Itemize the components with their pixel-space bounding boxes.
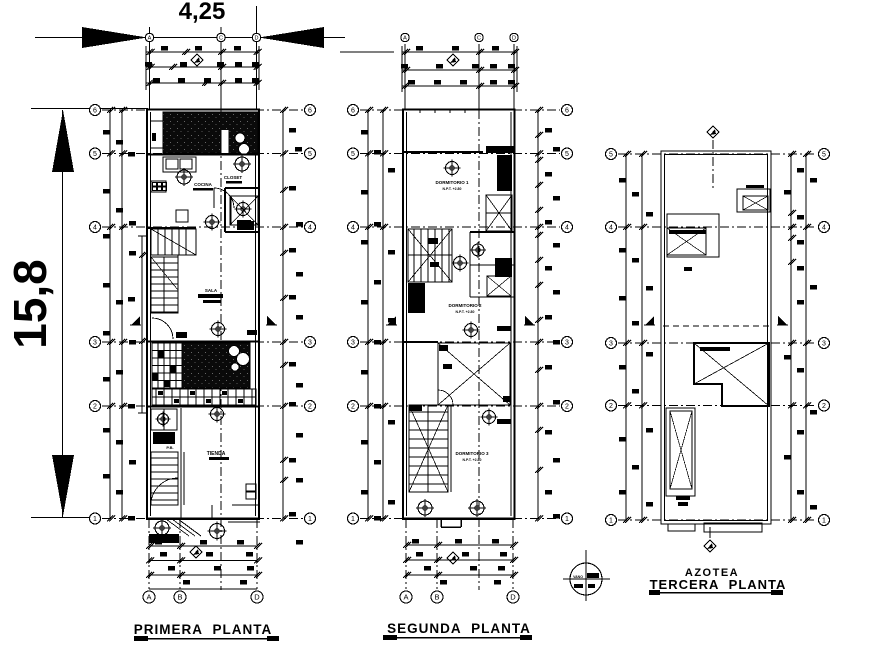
grid column A plan1 top	[149, 27, 151, 110]
svg-text:D: D	[254, 593, 260, 602]
svg-text:6: 6	[93, 108, 97, 115]
svg-text:1: 1	[351, 516, 355, 523]
stray line left of plan2	[340, 51, 394, 53]
svg-text:2: 2	[351, 404, 355, 411]
plan3 outer walls	[661, 151, 771, 524]
grid bubble 1	[90, 513, 101, 524]
grid bubble 4	[606, 222, 617, 233]
grid column D plan1 bottom	[256, 519, 258, 589]
big left arrow	[82, 27, 147, 48]
svg-text:A: A	[146, 593, 151, 602]
plan1 outer wall left	[146, 109, 148, 519]
title underline plan3	[649, 590, 783, 595]
grid bubble B	[431, 591, 443, 603]
grid bubble A	[145, 33, 153, 41]
grid bubble A	[143, 591, 155, 603]
grid line 5 plan2	[360, 153, 560, 155]
svg-text:PRIMERA PLANTA: PRIMERA PLANTA	[134, 622, 273, 637]
plan2 outer wall bottom	[402, 517, 516, 520]
bottom tabs plan3	[668, 523, 762, 532]
grid bubble 6	[305, 105, 316, 116]
svg-text:DORMITORIO 3: DORMITORIO 3	[456, 451, 489, 456]
grid bubble 5	[348, 148, 359, 159]
svg-text:D: D	[255, 35, 259, 41]
svg-text:5: 5	[351, 151, 355, 158]
washer black blob	[153, 432, 175, 444]
compass / vano symbol	[563, 550, 610, 601]
plumbing fixture circle	[175, 168, 193, 186]
svg-text:DORMITORIO 1: DORMITORIO 1	[436, 180, 469, 185]
grid line 6 plan2	[360, 109, 560, 111]
roof box left plan3	[667, 214, 719, 271]
svg-text:CLOSET: CLOSET	[224, 175, 243, 180]
plumbing fixture circle	[156, 412, 171, 427]
toilet black blob plan2	[495, 258, 512, 277]
title underline	[134, 636, 279, 641]
stair flight down	[151, 257, 178, 313]
grid bubble 3	[606, 338, 617, 349]
svg-text:3: 3	[822, 341, 826, 348]
svg-text:3: 3	[93, 340, 97, 347]
stair rail line	[177, 255, 179, 313]
grid bubble 5	[606, 149, 617, 160]
flags plan3	[644, 316, 655, 325]
grid bubble 2	[606, 400, 617, 411]
svg-text:4: 4	[822, 225, 826, 232]
dimension chain plan1 right	[280, 107, 303, 545]
grid line 2 plan3	[618, 405, 817, 407]
grid column C plan1 top	[220, 27, 222, 110]
L-shaped roof light plan3	[694, 343, 769, 406]
svg-text:3: 3	[609, 341, 613, 348]
appliance grid left	[151, 181, 167, 192]
grid line 5 plan1	[102, 153, 303, 155]
up arrow	[52, 110, 74, 172]
svg-text:4,25: 4,25	[179, 0, 226, 25]
grid bubble D	[252, 33, 260, 41]
grid column A plan2 bottom	[405, 519, 407, 589]
grid bubble 6	[562, 105, 573, 116]
tienda stair	[151, 452, 178, 505]
plan1 outer wall top	[146, 108, 260, 110]
svg-text:N.P.T. +2.80: N.P.T. +2.80	[463, 458, 482, 462]
small table	[176, 210, 188, 222]
grid bubble 2	[562, 401, 573, 412]
grid line 5 plan3	[618, 153, 817, 155]
grid bubble 6	[90, 105, 101, 116]
wall row4 partial	[147, 227, 196, 229]
wall row3 plan2	[403, 341, 438, 343]
wash basin circles	[235, 133, 245, 143]
plumbing fixture circle	[204, 214, 221, 231]
grid bubble A	[400, 591, 412, 603]
kitchen sink counter	[163, 157, 196, 172]
svg-text:6: 6	[308, 108, 312, 115]
grid bubble 4	[348, 222, 359, 233]
grid bubble 1	[819, 515, 830, 526]
svg-text:6: 6	[565, 108, 569, 115]
door arc X-room	[438, 390, 453, 405]
svg-text:15,8: 15,8	[4, 259, 56, 349]
svg-text:B: B	[177, 593, 182, 602]
roof box top-right plan3	[737, 185, 770, 212]
grid line 1 plan3	[618, 519, 817, 521]
grid bubble D	[507, 591, 519, 603]
room divider row5 plan2	[403, 151, 483, 153]
svg-text:3: 3	[308, 340, 312, 347]
north arrow symbol	[191, 54, 203, 66]
svg-text:A: A	[403, 35, 407, 41]
svg-text:4: 4	[308, 225, 312, 232]
small rects right tienda	[246, 484, 256, 491]
svg-text:D: D	[510, 593, 516, 602]
bath X rect plan2	[487, 276, 511, 296]
plumbing fixture circle	[470, 242, 486, 258]
door arc kitchen	[214, 188, 234, 208]
svg-text:VANO: VANO	[573, 575, 583, 579]
svg-text:5: 5	[609, 152, 613, 159]
grid bubble 5	[562, 148, 573, 159]
svg-text:5: 5	[93, 151, 97, 158]
big stair plan2	[409, 405, 448, 492]
entry black pad	[149, 534, 179, 543]
plumbing fixture circle	[452, 255, 469, 272]
bathtub with X	[230, 196, 258, 225]
wall row2 plan1	[147, 406, 260, 408]
dashed mid line plan3	[663, 325, 769, 327]
stairs upper plan2	[408, 229, 452, 282]
grid bubble 5	[90, 148, 101, 159]
plan2 outer wall left	[402, 109, 404, 519]
grid line 3 plan1	[102, 341, 303, 343]
black marks right bottom plan2	[497, 419, 511, 424]
svg-text:1: 1	[822, 518, 826, 525]
svg-text:4: 4	[565, 225, 569, 232]
grid bubble B	[174, 591, 186, 603]
grid column C plan2 top	[478, 44, 480, 110]
dimension chain plan2 left	[361, 107, 395, 522]
svg-text:1: 1	[93, 516, 97, 523]
bath walls	[225, 188, 259, 232]
plumbing fixture circle	[468, 499, 486, 517]
plumbing fixture circle	[444, 160, 461, 177]
svg-text:2: 2	[609, 403, 613, 410]
north arrow symbol	[447, 552, 459, 564]
tiled floor left	[152, 343, 182, 388]
grid column B plan1 bottom	[179, 519, 181, 589]
upper stair landing	[151, 229, 196, 255]
black rects near row3	[176, 332, 187, 338]
down arrow	[52, 455, 74, 516]
row5 wall plan1	[147, 154, 260, 156]
vertical dimension line left	[62, 110, 64, 517]
grid column D plan2 bottom	[512, 519, 514, 589]
grid bubble 3	[562, 337, 573, 348]
dimension line top	[35, 37, 345, 39]
dimension chain plan2 right	[535, 107, 560, 522]
grid column D plan1 top	[256, 6, 258, 110]
north arrow symbol	[190, 546, 202, 558]
grid bubble 3	[305, 337, 316, 348]
grid column A plan2 top	[404, 44, 406, 110]
svg-text:A: A	[148, 35, 152, 41]
plumbing fixture circle	[416, 499, 434, 517]
dark hatched patio	[182, 343, 250, 388]
X room plan2	[438, 343, 510, 405]
grid bubble 4	[819, 222, 830, 233]
flags plan2	[386, 316, 397, 325]
svg-text:6: 6	[351, 108, 355, 115]
grid bubble 1	[562, 513, 573, 524]
white slot in hatch	[222, 130, 229, 153]
big right arrow	[259, 27, 324, 48]
white tub circles	[229, 346, 240, 357]
svg-text:5: 5	[822, 152, 826, 159]
grid bubble 4	[90, 222, 101, 233]
flag markers row mid plan1	[130, 316, 141, 325]
plan2 outer wall top	[402, 108, 516, 110]
grid line 4 plan3	[618, 226, 817, 228]
north arrow symbol	[447, 54, 459, 66]
tall roof box bottom-left plan3	[666, 408, 695, 506]
grid line 3 plan2	[360, 341, 560, 343]
svg-text:N.P.T. +2.80: N.P.T. +2.80	[443, 187, 462, 191]
grid line 4 plan1	[102, 226, 303, 228]
svg-text:B: B	[434, 593, 439, 602]
plan1 outer wall bottom	[146, 517, 260, 520]
grid bubble 6	[348, 105, 359, 116]
svg-text:C: C	[219, 35, 223, 41]
svg-text:3: 3	[565, 340, 569, 347]
plumbing fixture circle	[481, 409, 498, 426]
plumbing fixture circle	[209, 406, 226, 423]
svg-text:1: 1	[565, 516, 569, 523]
extension line row 1 left	[31, 517, 95, 519]
svg-text:N.P.T. +2.80: N.P.T. +2.80	[456, 310, 475, 314]
bath walls mid plan2	[470, 232, 515, 297]
svg-text:2: 2	[93, 404, 97, 411]
grid column D plan2 top	[513, 44, 515, 110]
grid bubble D	[251, 591, 263, 603]
plumbing fixture circle	[153, 519, 171, 537]
svg-text:4: 4	[351, 225, 355, 232]
grid line 3 plan3	[618, 342, 817, 344]
svg-text:1: 1	[308, 516, 312, 523]
grid column A plan1 bottom	[148, 519, 150, 589]
grid bubble 1	[348, 513, 359, 524]
grid column B plan2 bottom	[436, 519, 438, 589]
elevator shaft with X	[486, 195, 512, 231]
door arc tienda	[232, 504, 260, 506]
small wc top-left tienda	[151, 409, 177, 430]
plan2 outer wall right	[513, 109, 515, 519]
grid bubble 3	[348, 337, 359, 348]
black step rects plan2	[428, 238, 438, 244]
grid bubble 5	[819, 149, 830, 160]
svg-text:3: 3	[351, 340, 355, 347]
svg-text:C: C	[477, 35, 481, 41]
sala furniture bars	[198, 294, 223, 298]
svg-text:1: 1	[609, 518, 613, 525]
svg-text:SALA: SALA	[205, 288, 218, 293]
svg-text:5: 5	[565, 151, 569, 158]
grid bubble C	[475, 33, 483, 41]
svg-text:D: D	[512, 35, 516, 41]
wall row3	[147, 341, 260, 343]
centre line C plan1	[220, 110, 222, 590]
stair right wall plan2	[450, 405, 452, 492]
svg-text:2: 2	[822, 403, 826, 410]
grid bubble 2	[819, 400, 830, 411]
dimension chain plan1 left	[103, 107, 136, 522]
svg-text:5: 5	[308, 151, 312, 158]
plumbing fixture circle	[210, 321, 227, 338]
plumbing fixture circle	[208, 522, 227, 541]
grid bubble D	[510, 33, 518, 41]
grid bubble C	[217, 33, 225, 41]
svg-text:2: 2	[308, 404, 312, 411]
grid bubble 1	[606, 515, 617, 526]
grid bubble 1	[305, 513, 316, 524]
title underline plan2	[383, 635, 532, 640]
grid bubble 3	[819, 338, 830, 349]
small room top-left	[151, 121, 164, 148]
plan1 dark hatched floor (kitchen zone)	[163, 112, 258, 153]
grid bubble 2	[348, 401, 359, 412]
grid bubble 4	[305, 222, 316, 233]
plumbing fixture circle	[463, 322, 480, 339]
svg-text:COCINA: COCINA	[194, 182, 212, 187]
interior dimension line plan1	[138, 236, 147, 413]
counter line	[228, 521, 260, 523]
svg-text:TIENDA: TIENDA	[207, 451, 226, 457]
grid bubble 5	[305, 148, 316, 159]
extension line row 6 left	[31, 108, 148, 110]
grid line 6 plan1	[102, 109, 303, 111]
tile band below	[152, 389, 256, 405]
grid bubble 4	[562, 222, 573, 233]
svg-text:TERCERA PLANTA: TERCERA PLANTA	[650, 577, 787, 592]
svg-text:4: 4	[609, 225, 613, 232]
svg-text:4: 4	[93, 225, 97, 232]
window ticks top plan2	[419, 109, 421, 113]
plumbing fixture circle	[235, 201, 252, 218]
grid bubble 3	[90, 337, 101, 348]
wall notch bottom plan2	[441, 519, 461, 527]
svg-text:A: A	[403, 593, 408, 602]
svg-text:2: 2	[565, 404, 569, 411]
north arrow symbol	[707, 126, 719, 138]
entry steps plan1	[166, 519, 201, 536]
door arc sala	[152, 318, 173, 339]
grid line 2 plan2	[360, 405, 560, 407]
dark wall rect dormitorio1	[497, 155, 512, 191]
plan1 outer wall right	[258, 109, 260, 519]
dimension chain plan3 right	[784, 151, 817, 523]
black fixture blob	[237, 221, 254, 230]
centre line C plan2	[478, 110, 480, 590]
svg-text:P.B.: P.B.	[166, 445, 173, 450]
grid bubble 2	[305, 401, 316, 412]
svg-text:SEGUNDA PLANTA: SEGUNDA PLANTA	[387, 621, 531, 636]
inner wall tienda	[180, 408, 182, 518]
dimension chain plan3 left	[619, 151, 653, 523]
plumbing fixture circle	[233, 155, 251, 173]
grid line 1 plan2	[360, 518, 560, 520]
grid line 4 plan2	[360, 226, 560, 228]
north arrow symbol	[704, 540, 716, 552]
top dimension strip plan2	[401, 46, 519, 92]
grid bubble 2	[90, 401, 101, 412]
dark column left plan2	[408, 283, 425, 313]
bottom dimension strip plan1	[146, 540, 262, 589]
grid line 1 plan1	[102, 518, 303, 520]
grid line 2 plan1	[102, 405, 303, 407]
grid bubble A	[401, 33, 409, 41]
top dimension strip plan1	[145, 46, 262, 90]
bottom dimension strip plan2	[403, 539, 518, 585]
svg-text:DORMITORIO 2: DORMITORIO 2	[449, 303, 482, 308]
